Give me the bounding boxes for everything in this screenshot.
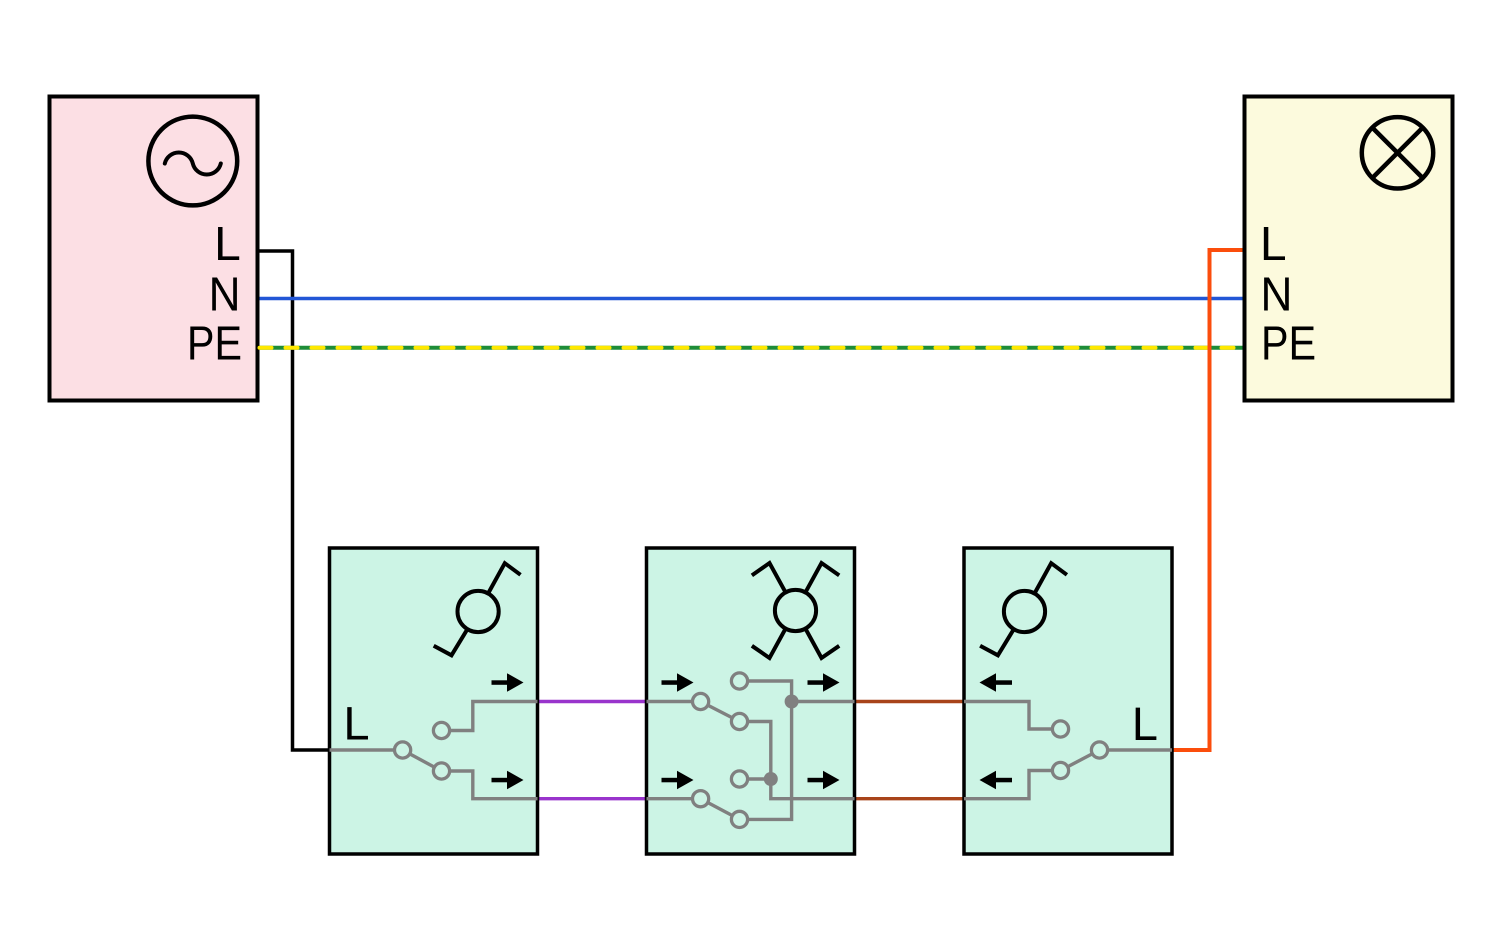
wire S2 top common feed xyxy=(647,700,701,703)
wire S1 upper throw to top traveller xyxy=(442,702,538,731)
S1 upper throw contact xyxy=(433,722,449,738)
arrow right, S2 top input xyxy=(662,680,678,685)
junction node, S2 top output xyxy=(785,695,799,709)
S2 bottom common contact xyxy=(693,791,709,807)
wire switched live (orange), switch 3 common to lamp L xyxy=(1172,250,1243,750)
wire S1 lower throw to bottom traveller xyxy=(442,771,538,799)
traveller wire top (brown), switch 2 to switch 3 xyxy=(855,700,965,703)
terminal label PE (lamp) xyxy=(1264,326,1314,359)
S2 top lower throw contact xyxy=(731,713,747,729)
S1 terminal label L xyxy=(347,707,368,739)
terminal label L (lamp) xyxy=(1264,227,1285,260)
terminal label N (supply) xyxy=(212,277,237,310)
traveller wire top (purple), switch 1 to switch 2 xyxy=(538,700,647,703)
wire PE earth (green/yellow), supply to lamp xyxy=(260,346,1243,350)
traveller wire bottom (purple), switch 1 to switch 2 xyxy=(538,797,647,800)
S3 upper throw contact xyxy=(1052,721,1068,737)
terminal label N (lamp) xyxy=(1264,277,1289,310)
terminal label L (supply) xyxy=(218,227,239,260)
S2 top common contact xyxy=(693,693,709,709)
wire S2 top lower throw down to bottom output xyxy=(740,722,855,799)
S2 top switch lever xyxy=(701,702,740,722)
lamp box (luminaire unit) xyxy=(1245,97,1453,401)
arrow right, S2 bottom input xyxy=(662,778,678,783)
junction node, S2 bottom crossover xyxy=(764,772,778,786)
S3 common contact xyxy=(1091,742,1107,758)
arrow right, S2 bottom output xyxy=(808,778,824,783)
S2 bottom upper throw contact xyxy=(731,771,747,787)
wire S2 crossover: top upper throw to bottom lower throw xyxy=(740,681,792,819)
wire L live (black), supply to switch 1 common xyxy=(260,251,330,750)
wire S2 top output xyxy=(792,700,855,703)
wire S3 top traveller in to upper throw xyxy=(964,702,1061,730)
arrow left, S3 bottom input xyxy=(980,771,997,790)
S1 switch lever (common to lower throw) xyxy=(403,750,442,771)
supply box (AC mains source unit) xyxy=(50,97,258,401)
arrow right, S2 top output xyxy=(808,680,824,685)
S1 two-way switch face icon xyxy=(434,563,521,655)
switch box S2 (intermediate crossover switch) xyxy=(647,548,855,854)
AC source G1 (circle with sine) xyxy=(148,117,237,206)
switch box S1 (two-way switch) xyxy=(330,548,538,854)
wire S2 bottom upper throw stub xyxy=(740,777,771,780)
wire S2 bottom common feed xyxy=(647,797,701,800)
terminal label PE (supply) xyxy=(190,326,240,359)
switch box S3 (two-way switch) xyxy=(964,548,1172,854)
wire S1 common feed xyxy=(330,748,403,751)
S3 two-way switch face icon xyxy=(980,563,1067,655)
S2 top upper throw contact xyxy=(731,673,747,689)
S2 intermediate switch face icon xyxy=(752,563,839,658)
arrow right, S1 bottom output xyxy=(492,778,508,783)
wire N neutral (blue), supply to lamp xyxy=(260,297,1243,301)
arrow left, S3 top input xyxy=(980,673,997,692)
S1 lower throw contact xyxy=(433,763,449,779)
S2 bottom lower throw contact xyxy=(731,811,747,827)
lamp E1 (circle with cross) xyxy=(1362,117,1433,188)
S3 terminal label L xyxy=(1136,708,1157,740)
arrow right, S1 top output xyxy=(492,680,508,685)
S3 switch lever (common to lower throw) xyxy=(1061,750,1100,771)
S3 lower throw contact xyxy=(1052,762,1068,778)
wire S3 common out xyxy=(1100,748,1173,751)
S2 bottom switch lever xyxy=(701,799,740,820)
wire S3 bottom traveller in to lower throw xyxy=(964,771,1061,799)
traveller wire bottom (brown), switch 2 to switch 3 xyxy=(855,797,965,800)
S1 common contact xyxy=(395,742,411,758)
